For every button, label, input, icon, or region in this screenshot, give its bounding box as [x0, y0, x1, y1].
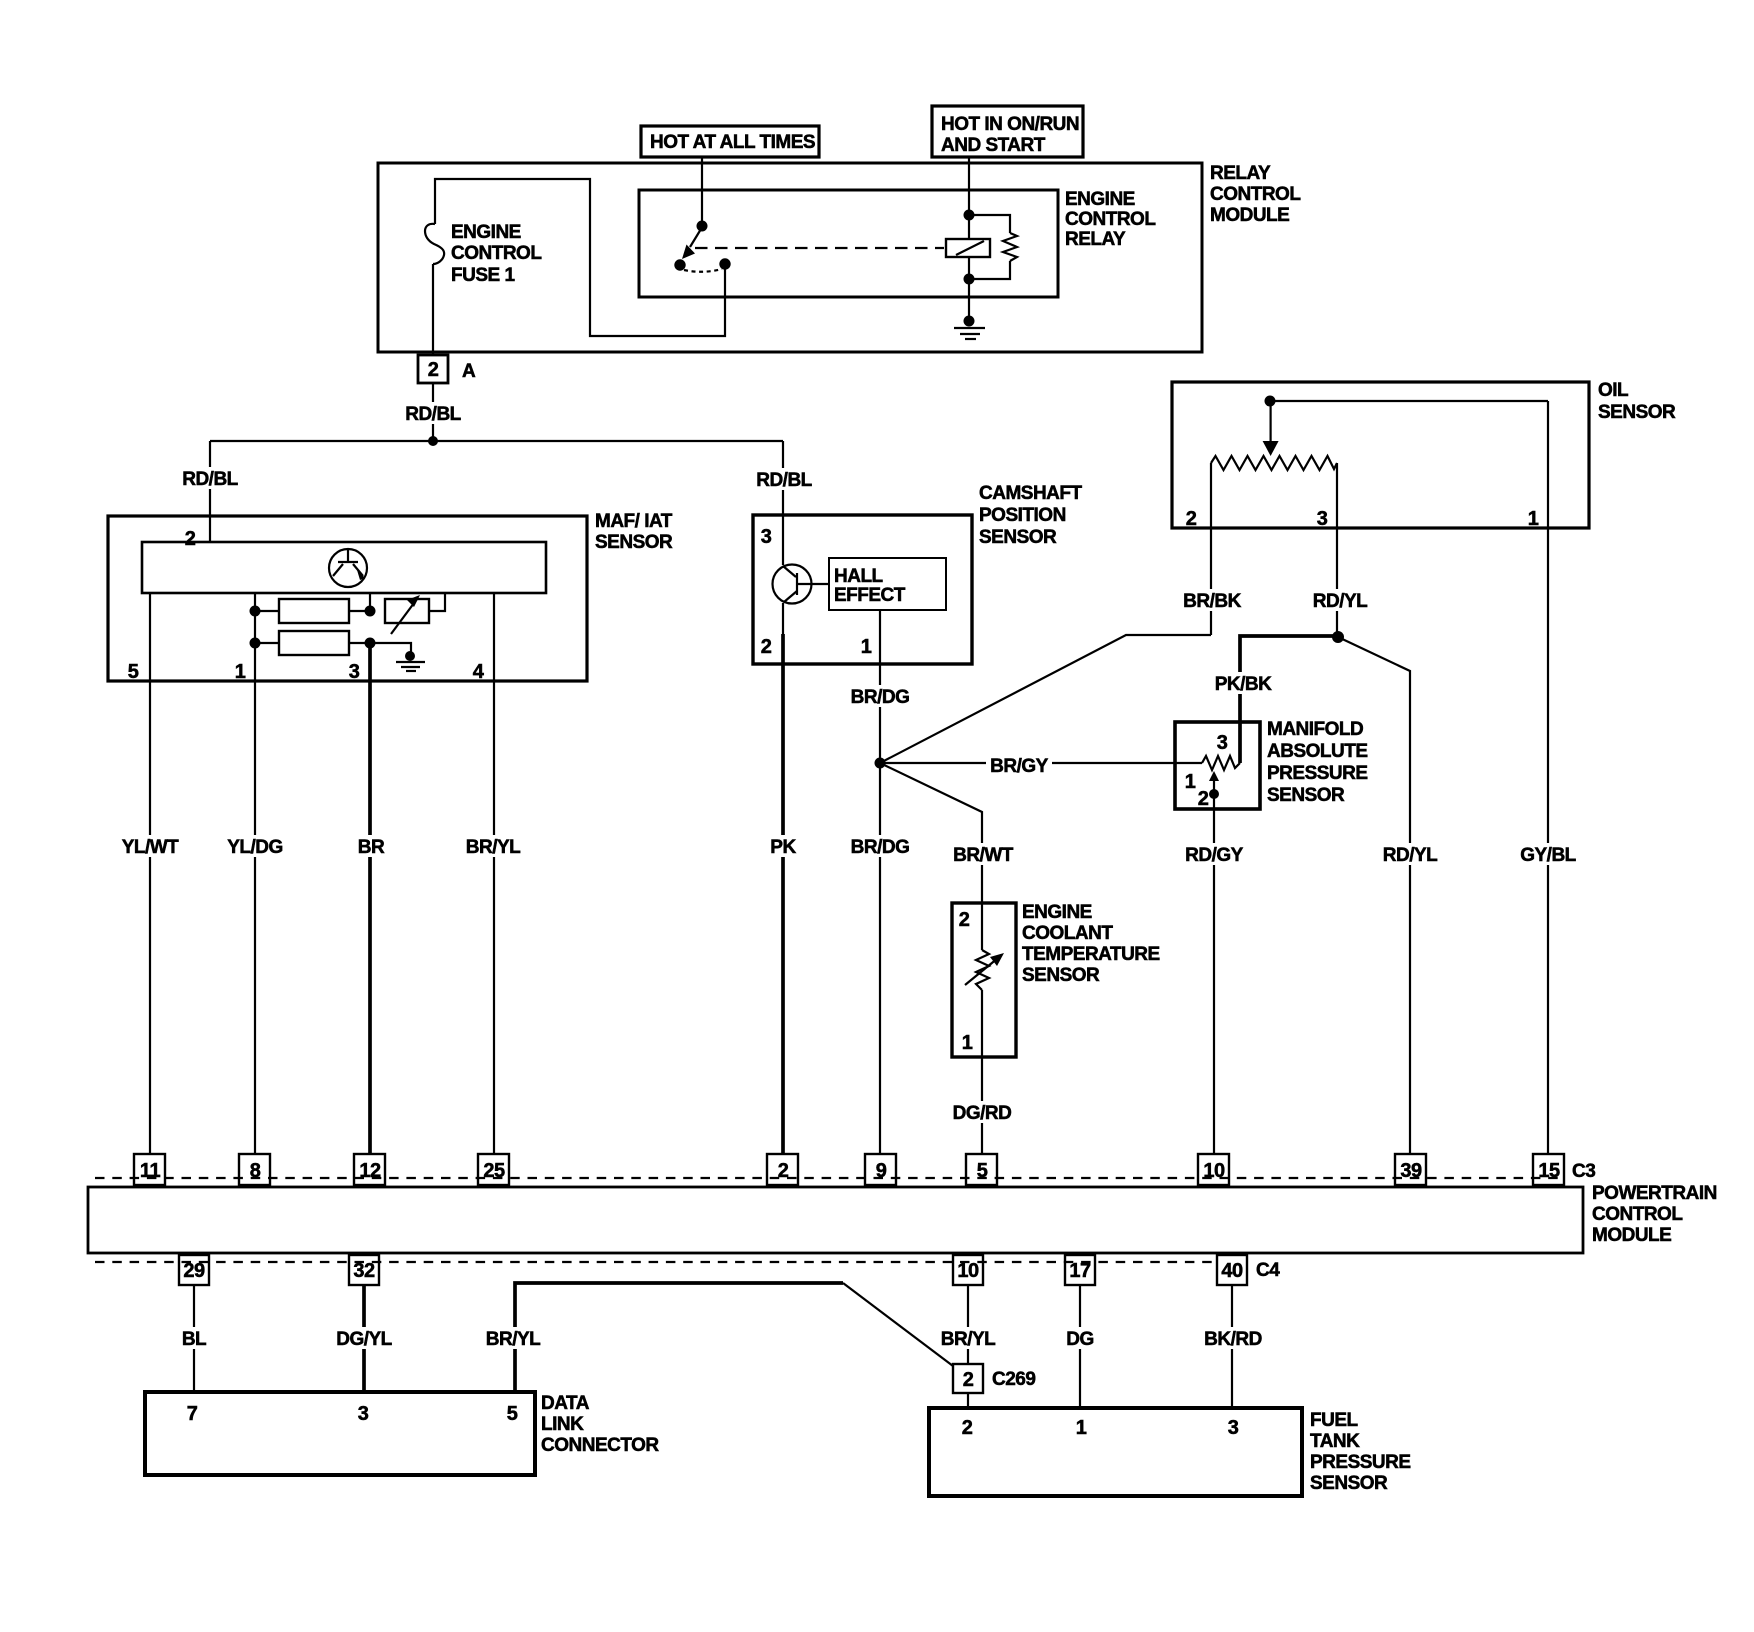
connector pin 2 A below module	[418, 355, 476, 383]
HALL EFFECT box	[829, 558, 946, 610]
wire RD/BL to MAF pin 2	[209, 441, 211, 542]
wire DG/YL PCM 32 to DLC 3 (thick)	[362, 1285, 366, 1392]
MAF inner element box	[142, 542, 546, 593]
svg-text:2: 2	[761, 636, 772, 658]
wire RD/BL horizontal bus	[210, 440, 783, 442]
svg-text:MODULE: MODULE	[1592, 1225, 1671, 1246]
power source label HOT IN ON/RUN AND START	[932, 106, 1083, 157]
wire RD/BL from pin A down	[432, 383, 434, 441]
wire MAF pin 5	[149, 593, 151, 1154]
label YL/WT	[120, 835, 180, 858]
connector C4 pin 40	[1217, 1255, 1247, 1285]
svg-text:RD/GY: RD/GY	[1185, 845, 1244, 866]
PCM connector C4 dashed line	[95, 1261, 1217, 1263]
wire BR/YL diagonal to C269	[843, 1283, 953, 1366]
potentiometer (MAP)	[1202, 756, 1240, 799]
svg-text:C269: C269	[992, 1369, 1035, 1390]
relay control module box	[378, 163, 1202, 352]
potentiometer (oil sensor)	[1211, 396, 1548, 529]
svg-text:4: 4	[473, 661, 485, 683]
svg-text:BR: BR	[358, 837, 385, 858]
connector C3 pin 8	[239, 1154, 270, 1185]
connector C3 pin 9	[865, 1154, 896, 1185]
svg-text:YL/WT: YL/WT	[122, 837, 179, 858]
svg-text:SENSOR: SENSOR	[1598, 402, 1676, 423]
svg-text:3: 3	[1317, 508, 1328, 530]
svg-text:BR/DG: BR/DG	[851, 687, 910, 708]
svg-text:3: 3	[1217, 732, 1228, 754]
label ENGINE CONTROL RELAY	[1065, 189, 1156, 250]
svg-text:2: 2	[778, 1160, 789, 1182]
svg-text:7: 7	[187, 1403, 198, 1425]
oil sensor box	[1172, 382, 1589, 528]
PCM connector C3 dashed line	[95, 1177, 1565, 1179]
svg-text:A: A	[462, 361, 476, 382]
svg-text:PRESSURE: PRESSURE	[1267, 763, 1368, 784]
svg-text:17: 17	[1069, 1260, 1091, 1282]
wire PK/BK thick from junction to MAP pin 3	[1240, 636, 1338, 763]
label ENGINE CONTROL FUSE 1	[451, 222, 542, 286]
svg-text:2: 2	[1198, 788, 1209, 810]
label RELAY CONTROL MODULE	[1210, 163, 1301, 226]
svg-text:2: 2	[963, 1369, 974, 1391]
label PK/BK	[1213, 672, 1273, 695]
label YL/DG	[225, 835, 285, 858]
node MAF right lower	[365, 638, 376, 649]
wire from HOT AT ALL TIMES to relay switch	[701, 157, 703, 225]
svg-text:2: 2	[428, 359, 439, 381]
thermistor (ECT)	[965, 903, 1004, 1057]
svg-text:POWERTRAIN: POWERTRAIN	[1592, 1183, 1717, 1204]
svg-text:1: 1	[962, 1032, 973, 1054]
label DATA LINK CONNECTOR	[541, 1393, 659, 1456]
wire BR/GY from splice to MAP pin 1	[880, 762, 1202, 764]
svg-text:OIL: OIL	[1598, 380, 1629, 401]
svg-text:10: 10	[957, 1260, 979, 1282]
wire BR/BK branch diagonal to splice	[880, 635, 1211, 763]
svg-text:32: 32	[353, 1260, 375, 1282]
connector C3 pin 2	[767, 1154, 798, 1185]
svg-text:1: 1	[235, 661, 246, 683]
svg-text:SENSOR: SENSOR	[1267, 785, 1345, 806]
svg-text:HALL: HALL	[834, 566, 884, 587]
svg-text:5: 5	[977, 1160, 988, 1182]
label BR/GY	[986, 753, 1052, 777]
svg-text:MAF/ IAT: MAF/ IAT	[595, 511, 673, 532]
connector C3 pin 25	[478, 1154, 509, 1185]
label BL	[180, 1327, 208, 1350]
svg-text:BR/WT: BR/WT	[953, 845, 1014, 866]
wire DG PCM 17 to FTP 1	[1079, 1285, 1081, 1408]
svg-text:BR/GY: BR/GY	[990, 756, 1049, 777]
wire fuse top to relay switch contact	[435, 179, 725, 336]
svg-text:CONTROL: CONTROL	[1210, 184, 1301, 205]
relay control dashed link	[695, 247, 944, 249]
node splice (BR/DG junction)	[875, 758, 886, 769]
svg-text:RD/BL: RD/BL	[405, 404, 461, 425]
svg-text:RD/BL: RD/BL	[182, 469, 238, 490]
svg-text:15: 15	[1538, 1160, 1560, 1182]
wire C269 to FTP pin 2	[967, 1393, 969, 1408]
fuel tank pressure sensor box	[929, 1408, 1302, 1496]
relay coil parallel resistor	[969, 215, 1017, 279]
svg-text:3: 3	[358, 1403, 369, 1425]
svg-text:2: 2	[959, 909, 970, 931]
label GY/BL	[1518, 843, 1578, 866]
svg-text:29: 29	[183, 1260, 205, 1282]
connector C4 pin 32	[349, 1255, 379, 1285]
connector C4 pin 17	[1065, 1255, 1095, 1285]
relay switch armature	[674, 221, 730, 272]
label POWERTRAIN CONTROL MODULE	[1592, 1183, 1717, 1246]
wire PK CMP pin 2 to PCM (thick)	[781, 634, 785, 1154]
label RD/GY	[1183, 843, 1245, 866]
connector C3 pin 39	[1395, 1154, 1426, 1185]
label RD/YL (upper)	[1311, 589, 1370, 612]
wire BR/YL PCM 10 to C269	[967, 1285, 969, 1364]
label BR/YL	[464, 835, 523, 858]
svg-text:39: 39	[1400, 1160, 1422, 1182]
svg-text:CONTROL: CONTROL	[451, 243, 542, 264]
ground (MAF internal)	[370, 643, 425, 671]
svg-text:BL: BL	[182, 1329, 207, 1350]
engine coolant temperature sensor box	[952, 903, 1016, 1057]
svg-text:10: 10	[1203, 1160, 1225, 1182]
label PK	[768, 835, 798, 858]
svg-text:BR/DG: BR/DG	[851, 837, 910, 858]
svg-text:BR/YL: BR/YL	[466, 837, 521, 858]
svg-text:RD/YL: RD/YL	[1383, 845, 1438, 866]
node MAF left lower	[250, 638, 261, 649]
manifold absolute pressure sensor box	[1175, 722, 1260, 809]
connector C3 pin 11	[134, 1154, 165, 1185]
label BR/YL (right)	[939, 1327, 998, 1350]
data link connector box	[145, 1392, 535, 1475]
label BR/DG (lower)	[849, 835, 911, 858]
label FUEL TANK PRESSURE SENSOR	[1310, 1410, 1411, 1494]
label DG/YL	[334, 1327, 394, 1350]
svg-text:BK/RD: BK/RD	[1204, 1329, 1262, 1350]
label BR/BK	[1182, 589, 1243, 612]
svg-text:CONTROL: CONTROL	[1065, 209, 1156, 230]
svg-text:2: 2	[185, 528, 196, 550]
svg-text:12: 12	[359, 1160, 381, 1182]
wire CMP pin 2 upper	[782, 603, 784, 636]
svg-text:1: 1	[1185, 771, 1196, 793]
svg-text:RELAY: RELAY	[1065, 229, 1126, 250]
svg-text:ABSOLUTE: ABSOLUTE	[1267, 741, 1368, 762]
svg-text:BR/YL: BR/YL	[941, 1329, 996, 1350]
powertrain control module box	[88, 1187, 1583, 1253]
relay coil	[946, 210, 990, 285]
label ENGINE COOLANT TEMPERATURE SENSOR	[1022, 902, 1160, 986]
svg-text:RD/BL: RD/BL	[756, 470, 812, 491]
svg-text:8: 8	[250, 1160, 261, 1182]
label BR/YL (left)	[484, 1327, 543, 1350]
svg-text:DG/YL: DG/YL	[336, 1329, 392, 1350]
MAF/IAT sensor box	[108, 516, 587, 681]
node MAF right upper	[365, 592, 376, 617]
fuse F1 ENGINE CONTROL FUSE 1	[425, 180, 444, 355]
wire MAF pin 1 with junction dots	[254, 593, 256, 1154]
svg-text:SENSOR: SENSOR	[595, 532, 673, 553]
connector C4 pin 29	[179, 1255, 209, 1285]
svg-text:DG: DG	[1066, 1329, 1094, 1350]
relay K1 ENGINE CONTROL RELAY box	[639, 190, 1058, 297]
node MAF left upper	[250, 606, 261, 617]
svg-text:TEMPERATURE: TEMPERATURE	[1022, 944, 1160, 965]
connector C3 pin 12	[354, 1154, 385, 1185]
svg-text:YL/DG: YL/DG	[227, 837, 283, 858]
svg-text:1: 1	[861, 636, 872, 658]
label RD/BL	[404, 402, 463, 425]
svg-text:1: 1	[1528, 508, 1539, 530]
svg-text:MANIFOLD: MANIFOLD	[1267, 719, 1363, 740]
svg-text:HOT AT ALL TIMES: HOT AT ALL TIMES	[650, 132, 815, 153]
label BR/DG (upper)	[849, 685, 911, 708]
wire RD/GY MAP pin 2 to PCM	[1213, 794, 1215, 1154]
label MANIFOLD ABSOLUTE PRESSURE SENSOR	[1267, 719, 1368, 806]
wire CMP pin 1 BR/DG	[879, 610, 881, 1154]
svg-text:CONNECTOR: CONNECTOR	[541, 1435, 659, 1456]
svg-text:CAMSHAFT: CAMSHAFT	[979, 483, 1082, 504]
svg-text:ENGINE: ENGINE	[1065, 189, 1135, 210]
svg-text:GY/BL: GY/BL	[1520, 845, 1576, 866]
label MAF/ IAT SENSOR	[595, 511, 673, 553]
svg-text:25: 25	[483, 1160, 505, 1182]
label RD/YL (lower)	[1381, 843, 1440, 866]
connector C3 pin 15	[1533, 1154, 1564, 1185]
label BK/RD	[1203, 1327, 1264, 1350]
svg-text:SENSOR: SENSOR	[979, 527, 1057, 548]
label DG	[1064, 1327, 1096, 1350]
label OIL SENSOR	[1598, 380, 1676, 423]
svg-text:RD/YL: RD/YL	[1313, 591, 1368, 612]
connector C3 pin 10	[1198, 1154, 1229, 1185]
variable resistor (hot film)	[385, 593, 445, 634]
svg-text:DATA: DATA	[541, 1393, 590, 1414]
label RD/BL (right)	[755, 468, 814, 491]
svg-text:5: 5	[128, 661, 139, 683]
svg-text:2: 2	[1186, 508, 1197, 530]
camshaft position sensor box	[753, 515, 972, 664]
wire BR/WT diagonal from splice	[880, 763, 982, 903]
wire GY/BL oil pin 1 to PCM	[1547, 401, 1549, 1154]
wire BK/RD PCM 40 to FTP 3	[1231, 1285, 1233, 1408]
svg-text:CONTROL: CONTROL	[1592, 1204, 1683, 1225]
wire from HOT IN ON/RUN AND START to relay coil	[968, 157, 970, 215]
svg-text:3: 3	[761, 526, 772, 548]
node RD/YL junction	[1332, 631, 1344, 643]
svg-text:HOT IN ON/RUN: HOT IN ON/RUN	[941, 114, 1079, 135]
svg-text:EFFECT: EFFECT	[834, 585, 906, 606]
svg-text:PK/BK: PK/BK	[1215, 674, 1272, 695]
label BR/WT	[952, 843, 1014, 866]
wire BL PCM 29 to DLC 7	[193, 1285, 195, 1392]
svg-text:ENGINE: ENGINE	[451, 222, 521, 243]
svg-text:RELAY: RELAY	[1210, 163, 1271, 184]
svg-text:PRESSURE: PRESSURE	[1310, 1452, 1411, 1473]
MAF hot-wire element symbol	[329, 549, 367, 587]
connector C3 pin 5	[966, 1154, 997, 1185]
svg-text:5: 5	[507, 1403, 518, 1425]
svg-text:C3: C3	[1572, 1161, 1595, 1182]
wire RD/BL to CMP pin 3	[782, 441, 784, 565]
svg-text:3: 3	[1228, 1417, 1239, 1439]
wire DG/RD ECT pin 1 to PCM	[981, 1057, 983, 1154]
connector C4 pin 10	[953, 1255, 983, 1285]
wire BR/YL DLC 5 to C269 (thick)	[515, 1283, 843, 1392]
transistor (hall output)	[773, 565, 830, 604]
resistor (upper, IAT)	[255, 599, 370, 623]
resistor (lower)	[255, 631, 370, 655]
svg-text:LINK: LINK	[541, 1414, 584, 1435]
svg-text:SENSOR: SENSOR	[1022, 965, 1100, 986]
svg-text:ENGINE: ENGINE	[1022, 902, 1092, 923]
node RD/BL distribution junction	[428, 436, 438, 446]
svg-text:C4: C4	[1256, 1260, 1280, 1281]
wire RD/YL diagonal to PCM pin 39	[1338, 637, 1410, 1154]
connector C269 pin 2	[953, 1364, 983, 1393]
wire MAF pin 3 (thick)	[368, 643, 372, 1154]
svg-text:DG/RD: DG/RD	[953, 1103, 1012, 1124]
svg-text:3: 3	[349, 661, 360, 683]
svg-text:40: 40	[1221, 1260, 1243, 1282]
label CAMSHAFT POSITION SENSOR	[979, 483, 1082, 548]
ground (relay)	[954, 279, 985, 339]
wire BR/BK oil pin 2 down	[1210, 528, 1212, 635]
svg-text:SENSOR: SENSOR	[1310, 1473, 1388, 1494]
svg-text:FUEL: FUEL	[1310, 1410, 1359, 1431]
wire MAF pin 4	[493, 593, 495, 1154]
label DG/RD	[951, 1101, 1013, 1124]
svg-text:COOLANT: COOLANT	[1022, 923, 1113, 944]
label RD/BL (left)	[181, 467, 240, 490]
svg-text:BR/BK: BR/BK	[1183, 591, 1241, 612]
svg-text:11: 11	[140, 1160, 161, 1182]
wire RD/YL oil pin 3 down	[1336, 528, 1338, 637]
power source label HOT AT ALL TIMES	[641, 126, 819, 157]
svg-text:MODULE: MODULE	[1210, 205, 1289, 226]
svg-text:AND START: AND START	[941, 135, 1046, 156]
svg-text:FUSE 1: FUSE 1	[451, 265, 515, 286]
svg-text:PK: PK	[770, 837, 796, 858]
svg-text:1: 1	[1076, 1417, 1087, 1439]
svg-text:BR/YL: BR/YL	[486, 1329, 541, 1350]
label BR	[356, 835, 387, 858]
svg-text:2: 2	[962, 1417, 973, 1439]
svg-text:POSITION: POSITION	[979, 505, 1066, 526]
svg-text:9: 9	[876, 1160, 887, 1182]
svg-text:TANK: TANK	[1310, 1431, 1360, 1452]
